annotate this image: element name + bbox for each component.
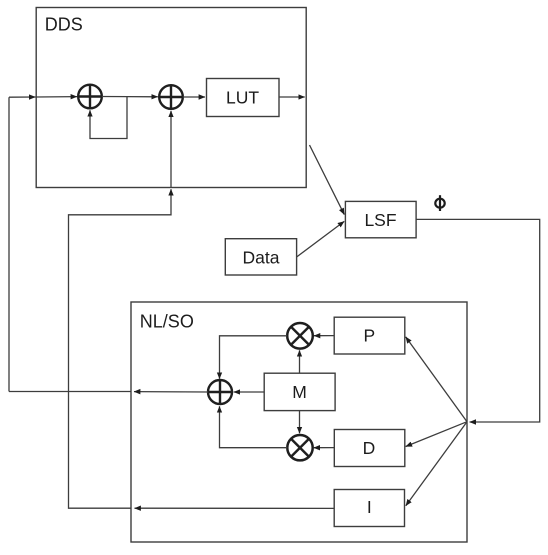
wire: feedback from NL/SO adder output, left vertical up to DDS input xyxy=(8,97,10,391)
wire: A3 output continues outside box to left vertical xyxy=(9,391,131,393)
wire: junction to P box xyxy=(406,337,467,422)
svg-text:I: I xyxy=(367,497,372,517)
M box xyxy=(264,373,335,410)
wire: A1 feedback loop (accumulator) xyxy=(90,97,127,139)
wire: A2 output to LUT xyxy=(183,96,205,98)
wire: X1 output left then down into adder A3 top xyxy=(220,336,288,379)
svg-text:M: M xyxy=(292,382,307,402)
Data box xyxy=(225,239,296,275)
wire: A3 output left to NL/SO edge (arrow) xyxy=(134,391,208,393)
wire: D to multiplier X2 xyxy=(314,447,335,449)
wire: P to multiplier X1 xyxy=(314,335,334,337)
multiplier X2 xyxy=(287,435,312,460)
svg-text:LSF: LSF xyxy=(364,210,396,230)
wire: DDS box edge to adder A1 xyxy=(36,96,77,98)
wire: junction to I box xyxy=(406,422,467,506)
wire: X2 output left then up into adder A3 bottom xyxy=(220,406,288,447)
svg-text:DDS: DDS xyxy=(45,15,83,35)
node phi label xyxy=(435,195,444,211)
adder A1 (phase accumulator) xyxy=(78,85,102,109)
D box xyxy=(334,430,405,467)
wire: Data diagonal to LSF xyxy=(297,221,345,257)
wire: LUT output to DDS right edge xyxy=(279,96,305,98)
wire: A1 output to adder A2 xyxy=(102,96,158,98)
svg-text:D: D xyxy=(363,438,376,458)
I box xyxy=(334,490,404,527)
wire: junction to D box xyxy=(406,422,467,447)
LSF box xyxy=(345,201,416,237)
DDS block box xyxy=(36,8,306,188)
svg-text:LUT: LUT xyxy=(226,87,259,107)
wire: LSF output phi, right then down to junction at NL/SO edge xyxy=(416,219,540,422)
adder A3 xyxy=(208,380,232,404)
wire: I output continues outside, up and right into DDS bottom edge xyxy=(69,189,172,508)
adder A2 xyxy=(159,85,183,109)
wire: DDS output diagonal to LSF xyxy=(310,145,345,215)
multiplier X1 xyxy=(287,323,313,349)
svg-text:NL/SO: NL/SO xyxy=(140,311,194,331)
wire: M down into X2 xyxy=(299,411,301,434)
P box xyxy=(334,317,405,354)
svg-text:Data: Data xyxy=(243,247,280,267)
wire: I output left to NL/SO edge (arrow) xyxy=(135,507,335,509)
wire: DDS input into box (arrow at DDS left edge) xyxy=(9,96,35,98)
wire: frequency input rising into A2 from DDS bottom edge xyxy=(170,111,172,188)
LUT box xyxy=(207,79,280,117)
wire: M up into X1 xyxy=(299,350,301,373)
wire: M output into adder A3 xyxy=(234,391,265,393)
svg-text:P: P xyxy=(363,326,375,346)
NL/SO block box xyxy=(131,302,467,542)
